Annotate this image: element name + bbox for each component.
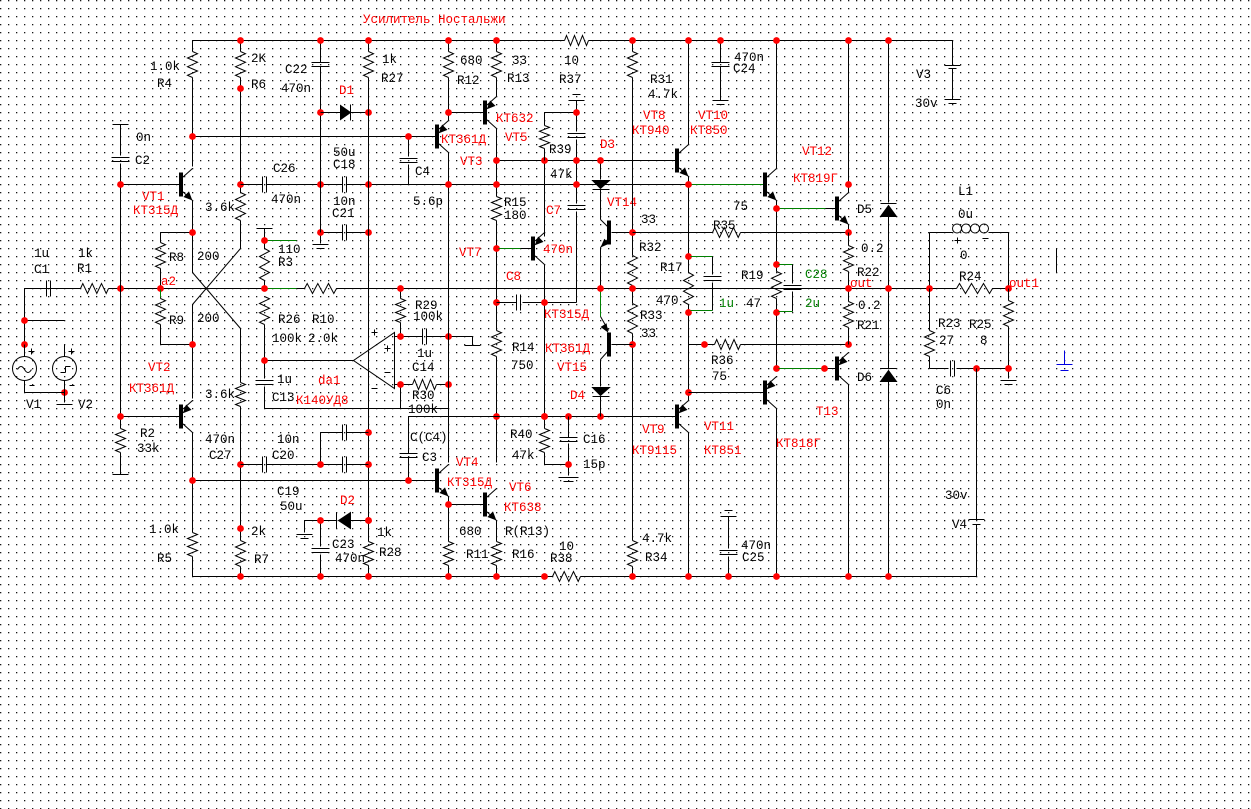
junction — [405, 133, 412, 140]
wire R3 stub — [267, 240, 297, 242]
transistor VT12 — [793, 145, 849, 225]
transistor VT9 — [632, 401, 689, 459]
svg-text:R11: R11 — [466, 548, 489, 562]
svg-text:out: out — [850, 277, 873, 291]
svg-text:C19: C19 — [277, 485, 300, 499]
svg-text:470n: 470n — [335, 552, 365, 566]
wire x496b — [496, 249, 498, 303]
junction — [773, 573, 780, 580]
svg-text:470n: 470n — [205, 433, 235, 447]
wire x368 — [368, 113, 370, 521]
wire left column — [120, 185, 122, 417]
svg-text:2.0k: 2.0k — [308, 332, 338, 346]
resistor R27 — [364, 41, 404, 113]
title — [363, 13, 506, 27]
junction — [445, 381, 452, 388]
junction — [821, 365, 828, 372]
resistor R15 — [492, 185, 527, 249]
junction — [541, 413, 548, 420]
svg-text:4.7k: 4.7k — [642, 532, 672, 546]
svg-text:R34: R34 — [645, 551, 668, 565]
svg-text:1k: 1k — [78, 247, 93, 261]
wire VT8 collector — [688, 41, 690, 145]
svg-text:a2: a2 — [161, 275, 176, 289]
junction — [493, 245, 500, 252]
inductor L1 — [953, 185, 989, 244]
svg-text:3.6k: 3.6k — [205, 201, 235, 215]
svg-text:R31: R31 — [650, 73, 673, 87]
svg-text:КТ361Д: КТ361Д — [129, 382, 175, 396]
svg-text:2K: 2K — [251, 52, 267, 66]
svg-text:D6: D6 — [857, 371, 872, 385]
junction — [845, 285, 852, 292]
svg-text:5.6p: 5.6p — [413, 195, 443, 209]
transistor VT3 — [436, 113, 487, 170]
svg-text:V4: V4 — [952, 518, 967, 532]
svg-text:33: 33 — [641, 213, 656, 227]
svg-text:VT7: VT7 — [459, 246, 482, 260]
junction — [237, 573, 244, 580]
junction — [926, 285, 933, 292]
svg-text:0: 0 — [960, 249, 968, 263]
svg-text:VT8: VT8 — [643, 109, 666, 123]
junction — [61, 389, 68, 396]
junction — [397, 333, 404, 340]
wire mark — [1056, 249, 1058, 273]
junction — [189, 477, 196, 484]
wire top supply rail — [193, 40, 953, 42]
transistor VT11 — [704, 377, 777, 459]
junction — [701, 341, 708, 348]
svg-text:C20: C20 — [272, 449, 295, 463]
wire VT9 emitter — [688, 433, 690, 577]
junction — [21, 341, 28, 348]
svg-text:R23: R23 — [938, 317, 961, 331]
svg-text:30v: 30v — [945, 489, 968, 503]
junction — [117, 413, 124, 420]
svg-text:C4: C4 — [415, 165, 430, 179]
junction — [1005, 365, 1012, 372]
wire VT10 base — [691, 184, 764, 186]
wire x688 — [688, 345, 690, 401]
svg-text:R21: R21 — [857, 319, 880, 333]
svg-text:3.6k: 3.6k — [205, 388, 235, 402]
svg-text:КТ850: КТ850 — [690, 124, 728, 138]
ground V2 — [57, 404, 73, 406]
svg-text:R30: R30 — [412, 389, 435, 403]
wire opamp minus — [400, 385, 402, 409]
capacitor C21 — [321, 195, 369, 241]
wire row 464 — [545, 464, 569, 466]
transistor VT4 — [436, 456, 493, 497]
transistor VT8 — [632, 109, 689, 177]
svg-text:C6: C6 — [936, 384, 951, 398]
wire row 184 — [409, 184, 689, 186]
svg-text:V2: V2 — [78, 398, 93, 412]
svg-text:2k: 2k — [251, 525, 266, 539]
junction — [541, 573, 548, 580]
svg-text:0n: 0n — [936, 398, 951, 412]
wire bus green — [267, 288, 297, 290]
capacitor C3 — [400, 417, 448, 481]
svg-text:КТ361Д: КТ361Д — [545, 342, 591, 356]
resistor R26 — [260, 297, 303, 361]
resistor R16 — [492, 521, 551, 577]
svg-text:D3: D3 — [600, 138, 615, 152]
svg-text:C7: C7 — [546, 204, 561, 218]
wire cross B — [193, 249, 241, 345]
wire L1 left — [930, 232, 953, 234]
svg-text:27: 27 — [939, 334, 954, 348]
svg-text:110: 110 — [278, 243, 301, 257]
svg-text:R35: R35 — [713, 219, 736, 233]
resistor R23 — [925, 289, 961, 369]
junction — [365, 517, 372, 524]
junction — [317, 229, 324, 236]
junction — [845, 37, 852, 44]
junction — [365, 229, 372, 236]
junction — [365, 181, 372, 188]
svg-text:10n: 10n — [277, 433, 300, 447]
battery V4 — [945, 369, 985, 577]
resistor R13 — [492, 41, 530, 97]
junction — [189, 341, 196, 348]
svg-text:0u: 0u — [958, 208, 973, 222]
junction — [237, 525, 244, 532]
wire VT4 emitter — [448, 497, 450, 505]
wire x544c — [544, 303, 546, 417]
wire input left — [24, 289, 26, 345]
resistor R9 — [156, 289, 220, 345]
junction — [629, 341, 636, 348]
svg-text:2u: 2u — [805, 297, 820, 311]
capacitor C2 — [112, 125, 152, 185]
svg-text:470n: 470n — [271, 193, 301, 207]
svg-text:180: 180 — [504, 209, 527, 223]
resistor R38 — [550, 540, 581, 582]
junction — [397, 285, 404, 292]
junction — [573, 181, 580, 188]
capacitor C22 — [281, 41, 330, 113]
node a2 — [161, 275, 176, 289]
junction — [773, 261, 780, 268]
capacitor C26 — [241, 162, 343, 207]
resistor R6b 3.6k upper — [205, 185, 246, 249]
svg-text:L1: L1 — [958, 185, 973, 199]
resistor R25 — [969, 289, 1014, 369]
svg-text:33k: 33k — [137, 442, 160, 456]
wire VT12 collector — [848, 41, 850, 193]
capacitor C28 — [779, 265, 828, 312]
diode D2 — [321, 494, 369, 529]
svg-text:КТ851: КТ851 — [704, 444, 742, 458]
junction — [629, 229, 636, 236]
svg-text:75: 75 — [733, 200, 748, 214]
junction — [261, 285, 268, 292]
transistor VT15 — [544, 308, 633, 375]
junction — [685, 309, 692, 316]
wire x320 — [320, 113, 322, 233]
junction — [445, 37, 452, 44]
capacitor C24 — [712, 41, 765, 101]
svg-text:R25: R25 — [969, 318, 992, 332]
wire VT10 emitter — [776, 201, 778, 209]
junction — [261, 237, 268, 244]
junction — [445, 333, 452, 340]
junction — [845, 229, 852, 236]
wire bottom supply rail — [193, 576, 977, 578]
wire row 416 — [409, 416, 676, 418]
svg-text:C14: C14 — [412, 361, 435, 375]
resistor R30 — [395, 380, 449, 418]
wire VT2 collector — [192, 345, 194, 399]
wire VT5 base — [449, 112, 484, 114]
op-amp da1 — [296, 330, 395, 409]
svg-text:4.7k: 4.7k — [648, 88, 678, 102]
svg-text:750: 750 — [511, 359, 534, 373]
junction — [317, 573, 324, 580]
wire main bus — [25, 288, 1009, 290]
wire cross A — [193, 233, 241, 383]
capacitor C23 — [312, 521, 366, 577]
svg-text:47k: 47k — [512, 449, 535, 463]
junction — [773, 365, 780, 372]
junction — [597, 413, 604, 420]
svg-text:V3: V3 — [916, 68, 931, 82]
junction — [365, 573, 372, 580]
junction — [493, 413, 500, 420]
svg-text:C8: C8 — [506, 270, 521, 284]
svg-text:50u: 50u — [280, 500, 303, 514]
wire VT6 collector — [496, 417, 498, 463]
svg-text:R32: R32 — [639, 241, 662, 255]
junction — [565, 413, 572, 420]
transistor T13 — [776, 353, 849, 452]
transistor VT1 — [133, 137, 193, 219]
junction — [541, 413, 548, 420]
diode D3 — [593, 138, 616, 220]
wire VT10 collector — [776, 41, 778, 169]
junction — [685, 37, 692, 44]
resistor R21 — [844, 289, 881, 345]
svg-text:8: 8 — [980, 334, 988, 348]
svg-text:0.2: 0.2 — [858, 299, 881, 313]
resistor R32 — [628, 213, 662, 289]
resistor R36 — [689, 340, 849, 385]
junction — [973, 365, 980, 372]
svg-text:VT4: VT4 — [456, 456, 479, 470]
junction — [1005, 285, 1012, 292]
wire VT7 base — [499, 248, 533, 250]
svg-text:VT11: VT11 — [704, 420, 734, 434]
junction — [157, 285, 164, 292]
transistor VT6 — [484, 481, 542, 521]
svg-text:1.0k: 1.0k — [149, 523, 179, 537]
svg-text:VT2: VT2 — [148, 361, 171, 375]
junction — [237, 461, 244, 468]
resistor R29 — [396, 289, 444, 337]
resistor R5b 3.6k lower — [205, 383, 246, 465]
svg-text:R15: R15 — [504, 196, 527, 210]
svg-text:0n: 0n — [136, 131, 151, 145]
svg-text:47: 47 — [746, 297, 761, 311]
wire x320 lower — [320, 433, 322, 465]
svg-text:R33: R33 — [640, 309, 663, 323]
svg-text:R6: R6 — [251, 78, 266, 92]
ground C16 — [559, 465, 579, 482]
capacitor C16 — [560, 417, 606, 473]
junction — [317, 181, 324, 188]
svg-text:100k: 100k — [413, 310, 443, 324]
wire VT1 emitter — [192, 201, 194, 233]
wire VT15 base — [600, 290, 602, 317]
junction — [365, 461, 372, 468]
junction — [773, 37, 780, 44]
transistor VT10 — [690, 109, 777, 201]
svg-text:1u: 1u — [277, 373, 292, 387]
svg-text:R5: R5 — [157, 552, 172, 566]
svg-text:КТ940: КТ940 — [632, 124, 670, 138]
svg-text:R(R13): R(R13) — [505, 525, 550, 539]
ground C21 — [313, 233, 329, 249]
svg-text:D2: D2 — [340, 494, 355, 508]
svg-text:КТ315Д: КТ315Д — [544, 308, 590, 322]
resistor R14 — [492, 303, 535, 417]
resistor R37 — [559, 36, 589, 88]
diode D1 — [321, 84, 369, 121]
resistor R7 — [236, 465, 270, 577]
svg-text:R37: R37 — [559, 73, 582, 87]
wire VT6 base — [449, 504, 484, 506]
junction — [117, 181, 124, 188]
svg-text:R16: R16 — [512, 548, 535, 562]
svg-text:КТ9115: КТ9115 — [632, 444, 677, 458]
transistor VT7 — [459, 233, 545, 265]
svg-text:R28: R28 — [379, 546, 402, 560]
resistor R10 — [305, 284, 339, 347]
diode D6 — [857, 369, 897, 386]
junction — [773, 205, 780, 212]
svg-text:C22: C22 — [285, 63, 308, 77]
svg-text:1u: 1u — [417, 347, 432, 361]
svg-text:R17: R17 — [660, 261, 683, 275]
svg-text:680: 680 — [460, 54, 483, 68]
resistor R28 — [364, 521, 402, 577]
wire x888c — [888, 382, 890, 577]
svg-text:R4: R4 — [157, 77, 172, 91]
junction — [317, 109, 324, 116]
wire T13 emitter — [848, 385, 850, 577]
svg-text:470: 470 — [656, 294, 679, 308]
capacitor C14 — [395, 329, 449, 376]
junction — [117, 285, 124, 292]
junction — [365, 109, 372, 116]
capacitor C7a — [568, 134, 586, 204]
terminal R3 — [257, 229, 273, 241]
junction — [189, 133, 196, 140]
wire row 160 — [497, 160, 676, 162]
svg-text:33: 33 — [641, 327, 656, 341]
svg-text:15p: 15p — [583, 458, 606, 472]
terminal C7 — [569, 95, 585, 132]
capacitor C13 — [256, 361, 295, 409]
resistor R19 — [741, 209, 782, 313]
source V2 — [53, 345, 94, 413]
svg-text:D4: D4 — [570, 389, 585, 403]
svg-text:D5: D5 — [857, 203, 872, 217]
wire VT12 base — [779, 208, 837, 210]
svg-text:T13: T13 — [816, 405, 839, 419]
junction — [629, 573, 636, 580]
svg-text:R12: R12 — [457, 74, 480, 88]
svg-text:C16: C16 — [583, 433, 606, 447]
junction — [237, 181, 244, 188]
capacitor row464 — [343, 457, 369, 473]
svg-text:200: 200 — [197, 250, 220, 264]
junction — [885, 37, 892, 44]
svg-text:КТ819Г: КТ819Г — [793, 172, 838, 186]
junction — [445, 501, 452, 508]
junction — [685, 573, 692, 580]
resistor R6 — [236, 41, 267, 185]
svg-text:VT6: VT6 — [509, 481, 532, 495]
svg-text:R40: R40 — [510, 428, 533, 442]
junction — [21, 317, 28, 324]
junction — [237, 85, 244, 92]
junction — [445, 573, 452, 580]
svg-text:680: 680 — [459, 525, 482, 539]
junction — [629, 285, 636, 292]
svg-text:R9: R9 — [169, 314, 184, 328]
svg-text:R7: R7 — [254, 553, 269, 567]
terminal C25 — [721, 511, 737, 517]
junction — [445, 109, 452, 116]
svg-text:R3: R3 — [278, 256, 293, 270]
junction — [717, 37, 724, 44]
diode D4 — [570, 388, 610, 417]
svg-text:C3: C3 — [422, 451, 437, 465]
resistor R40 — [510, 417, 550, 464]
svg-text:1.0k: 1.0k — [150, 60, 180, 74]
resistor R2 — [116, 417, 160, 475]
wire x496a — [496, 161, 498, 185]
capacitor C18 — [333, 146, 409, 193]
svg-text:1u: 1u — [719, 297, 734, 311]
junction — [845, 573, 852, 580]
svg-text:R13: R13 — [507, 72, 530, 86]
resistor R12 — [444, 41, 483, 113]
wire VT12 emitter — [848, 225, 850, 233]
wire x888a — [888, 41, 890, 203]
svg-text:R19: R19 — [741, 269, 764, 283]
svg-text:C26: C26 — [273, 162, 296, 176]
svg-text:Усилитель Ностальжи: Усилитель Ностальжи — [363, 13, 506, 27]
junction — [725, 573, 732, 580]
junction — [189, 229, 196, 236]
svg-text:К140УД8: К140УД8 — [296, 394, 349, 408]
svg-text:V1: V1 — [26, 398, 41, 412]
junction — [597, 285, 604, 292]
junction — [845, 181, 852, 188]
wire L1 right — [989, 232, 1009, 234]
source V1 — [13, 345, 42, 413]
wire C7 bottom — [545, 302, 577, 304]
svg-text:R38: R38 — [550, 552, 573, 566]
resistor R17 — [656, 185, 694, 345]
wire a2 stub — [160, 290, 162, 298]
svg-text:C23: C23 — [332, 538, 355, 552]
svg-text:100k: 100k — [408, 403, 438, 417]
